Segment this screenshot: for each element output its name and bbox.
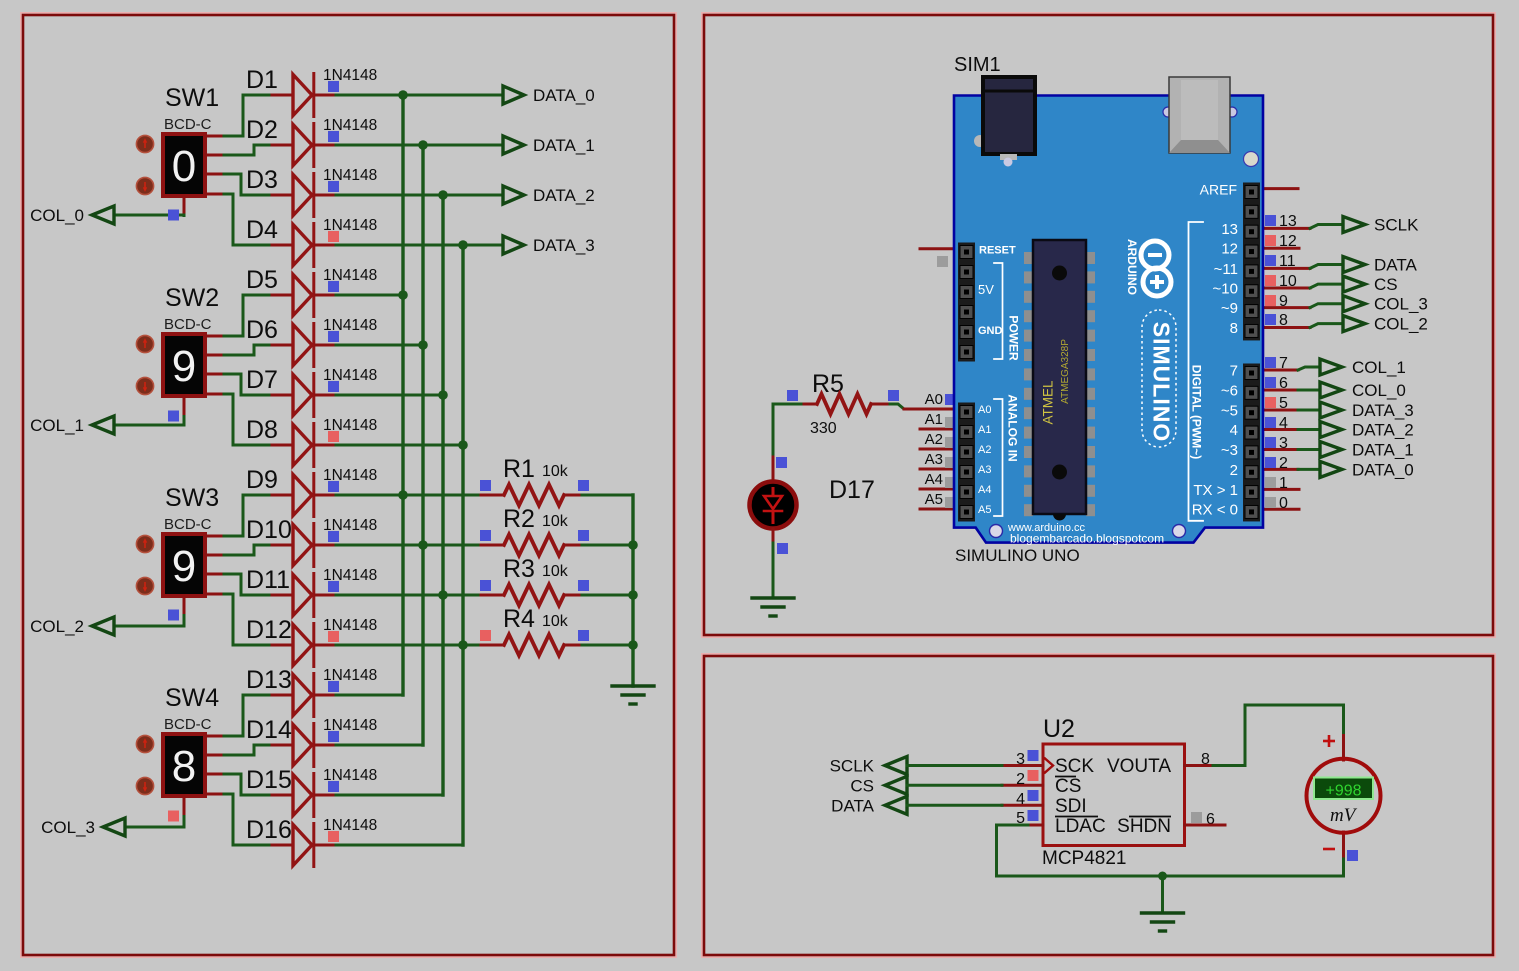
svg-text:COL_1: COL_1 — [1352, 358, 1406, 377]
svg-text:D10: D10 — [246, 516, 292, 544]
svg-text:D13: D13 — [246, 666, 292, 694]
svg-text:10k: 10k — [542, 613, 569, 630]
svg-text:4: 4 — [1016, 791, 1025, 808]
svg-text:A0: A0 — [978, 404, 991, 416]
svg-text:ATMEL: ATMEL — [1041, 380, 1056, 424]
svg-text:D3: D3 — [246, 166, 278, 194]
svg-text:~3: ~3 — [1221, 442, 1238, 459]
svg-text:RX < 0: RX < 0 — [1192, 502, 1238, 519]
svg-text:VOUTA: VOUTA — [1107, 756, 1171, 777]
svg-text:D2: D2 — [246, 116, 278, 144]
svg-text:2: 2 — [1016, 771, 1025, 788]
svg-text:BCD-C: BCD-C — [164, 316, 212, 333]
svg-text:5: 5 — [1279, 395, 1288, 412]
svg-text:D12: D12 — [246, 616, 292, 644]
svg-text:~5: ~5 — [1221, 403, 1238, 420]
svg-text:4: 4 — [1279, 415, 1288, 432]
svg-text:DATA_3: DATA_3 — [1352, 401, 1414, 420]
svg-text:SW4: SW4 — [165, 684, 219, 712]
svg-text:A3: A3 — [925, 451, 943, 468]
svg-text:CS: CS — [1055, 776, 1081, 797]
svg-text:A2: A2 — [925, 431, 943, 448]
svg-text:13: 13 — [1279, 213, 1297, 230]
svg-text:R1: R1 — [503, 455, 535, 483]
svg-text:SIM1: SIM1 — [954, 54, 1001, 76]
svg-text:A2: A2 — [978, 444, 991, 456]
svg-text:A1: A1 — [925, 411, 943, 428]
svg-text:MCP4821: MCP4821 — [1042, 848, 1127, 869]
svg-text:A3: A3 — [978, 464, 991, 476]
svg-text:9: 9 — [172, 342, 196, 391]
svg-text:BCD-C: BCD-C — [164, 116, 212, 133]
svg-text:GND: GND — [978, 325, 1003, 337]
svg-text:330: 330 — [810, 420, 837, 437]
svg-text:SCLK: SCLK — [1374, 216, 1419, 235]
svg-text:4: 4 — [1230, 422, 1238, 439]
svg-text:~9: ~9 — [1221, 300, 1238, 317]
svg-text:2: 2 — [1230, 462, 1238, 479]
svg-text:LDAC: LDAC — [1055, 816, 1106, 837]
svg-text:8: 8 — [1279, 312, 1288, 329]
svg-text:RESET: RESET — [979, 245, 1016, 257]
svg-text:A4: A4 — [978, 484, 991, 496]
svg-text:D11: D11 — [246, 566, 290, 594]
svg-text:DATA_1: DATA_1 — [1352, 441, 1414, 460]
svg-text:CS: CS — [1374, 275, 1398, 294]
svg-text:A0: A0 — [925, 391, 943, 408]
svg-text:0: 0 — [1279, 495, 1288, 512]
svg-text:0: 0 — [172, 142, 196, 191]
svg-text:6: 6 — [1279, 375, 1288, 392]
svg-text:D7: D7 — [246, 366, 278, 394]
svg-text:3: 3 — [1279, 435, 1288, 452]
svg-text:ANALOG IN: ANALOG IN — [1006, 394, 1020, 461]
svg-text:SIMULINO: SIMULINO — [1149, 322, 1175, 442]
svg-text:BCD-C: BCD-C — [164, 716, 212, 733]
svg-text:10k: 10k — [542, 513, 569, 530]
svg-text:A1: A1 — [978, 424, 991, 436]
svg-text:D1: D1 — [246, 66, 278, 94]
svg-text:mV: mV — [1330, 805, 1358, 826]
svg-text:ARDUINO: ARDUINO — [1125, 239, 1139, 295]
svg-text:DATA: DATA — [831, 796, 874, 815]
svg-text:DATA_3: DATA_3 — [533, 236, 595, 255]
svg-text:SW1: SW1 — [165, 84, 219, 112]
svg-text:9: 9 — [172, 542, 196, 591]
svg-text:7: 7 — [1279, 355, 1288, 372]
svg-text:D9: D9 — [246, 466, 278, 494]
svg-text:D5: D5 — [246, 266, 278, 294]
svg-text:2: 2 — [1279, 455, 1288, 472]
svg-text:DATA_2: DATA_2 — [533, 186, 595, 205]
svg-text:AREF: AREF — [1200, 182, 1237, 198]
svg-text:D6: D6 — [246, 316, 278, 344]
svg-text:12: 12 — [1221, 241, 1238, 258]
svg-text:DATA_1: DATA_1 — [533, 136, 595, 155]
svg-text:10k: 10k — [542, 463, 569, 480]
svg-text:COL_0: COL_0 — [30, 206, 84, 225]
svg-text:COL_3: COL_3 — [41, 818, 95, 837]
svg-text:SW2: SW2 — [165, 284, 219, 312]
svg-text:COL_0: COL_0 — [1352, 381, 1406, 400]
svg-text:D15: D15 — [246, 766, 292, 794]
svg-text:+998: +998 — [1325, 783, 1361, 800]
svg-text:~10: ~10 — [1213, 281, 1238, 298]
svg-text:10: 10 — [1279, 273, 1297, 290]
svg-text:COL_2: COL_2 — [30, 617, 84, 636]
svg-text:SCK: SCK — [1055, 756, 1094, 777]
svg-text:A4: A4 — [925, 471, 943, 488]
svg-text:DATA_0: DATA_0 — [533, 86, 595, 105]
svg-text:DIGITAL (PWM~): DIGITAL (PWM~) — [1190, 365, 1204, 460]
svg-text:blogembarcado.blogspotcom: blogembarcado.blogspotcom — [1010, 532, 1164, 546]
svg-text:7: 7 — [1230, 363, 1238, 380]
svg-text:5V: 5V — [978, 282, 994, 297]
svg-text:DATA_2: DATA_2 — [1352, 421, 1414, 440]
svg-text:10k: 10k — [542, 563, 569, 580]
svg-text:8: 8 — [1230, 320, 1238, 337]
svg-text:D17: D17 — [829, 476, 875, 504]
svg-text:SCLK: SCLK — [830, 757, 875, 776]
svg-text:8: 8 — [172, 742, 196, 791]
svg-text:A5: A5 — [925, 491, 943, 508]
svg-text:A5: A5 — [978, 504, 991, 516]
svg-text:COL_1: COL_1 — [30, 416, 84, 435]
svg-text:SW3: SW3 — [165, 484, 219, 512]
svg-text:CS: CS — [850, 776, 874, 795]
svg-text:U2: U2 — [1043, 715, 1075, 743]
svg-text:TX > 1: TX > 1 — [1193, 482, 1238, 499]
svg-text:DATA: DATA — [1374, 256, 1417, 275]
svg-text:ATMEGA328P: ATMEGA328P — [1060, 339, 1071, 404]
svg-text:SIMULINO UNO: SIMULINO UNO — [955, 546, 1080, 565]
svg-text:D8: D8 — [246, 416, 278, 444]
svg-text:12: 12 — [1279, 233, 1297, 250]
svg-text:~6: ~6 — [1221, 383, 1238, 400]
svg-text:COL_3: COL_3 — [1374, 295, 1428, 314]
svg-text:SHDN: SHDN — [1117, 816, 1171, 837]
svg-text:9: 9 — [1279, 293, 1288, 310]
svg-text:DATA_0: DATA_0 — [1352, 460, 1414, 479]
svg-text:1: 1 — [1279, 475, 1288, 492]
svg-text:3: 3 — [1016, 751, 1025, 768]
svg-text:SDI: SDI — [1055, 796, 1087, 817]
svg-text:13: 13 — [1221, 221, 1238, 238]
svg-text:R2: R2 — [503, 505, 535, 533]
svg-text:11: 11 — [1279, 253, 1296, 270]
svg-text:D16: D16 — [246, 816, 292, 844]
svg-text:BCD-C: BCD-C — [164, 516, 212, 533]
svg-text:COL_2: COL_2 — [1374, 315, 1428, 334]
svg-text:D4: D4 — [246, 216, 278, 244]
svg-text:POWER: POWER — [1007, 315, 1021, 361]
svg-text:D14: D14 — [246, 716, 292, 744]
svg-text:R4: R4 — [503, 605, 535, 633]
svg-text:~11: ~11 — [1214, 261, 1238, 278]
svg-text:R3: R3 — [503, 555, 535, 583]
